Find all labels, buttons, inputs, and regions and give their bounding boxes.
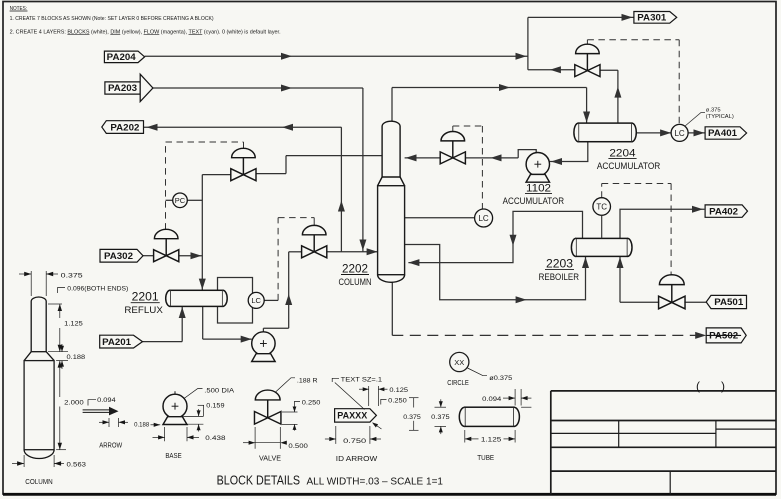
svg-text:PA501: PA501 [714,297,744,308]
svg-text:0.375: 0.375 [403,414,421,421]
svg-text:REBOILER: REBOILER [539,272,580,282]
svg-text:0.159: 0.159 [206,402,225,409]
svg-text:PA204: PA204 [107,52,137,63]
svg-text:2.000: 2.000 [64,399,84,406]
svg-text:ø.375: ø.375 [706,108,721,114]
svg-text:COLUMN: COLUMN [339,277,372,287]
svg-text:0.250: 0.250 [302,400,321,407]
svg-text:LC: LC [251,296,261,305]
svg-text:PA402: PA402 [709,206,738,217]
svg-text:1. CREATE 7 BLOCKS AS SHOWN (N: 1. CREATE 7 BLOCKS AS SHOWN (Note: SET L… [10,16,214,22]
svg-text:2203: 2203 [546,258,573,270]
svg-text:PA302: PA302 [104,251,133,262]
svg-text:(: ( [696,379,700,393]
svg-text:BASE: BASE [165,451,181,460]
svg-text:1.125: 1.125 [64,321,83,328]
svg-text:0.563: 0.563 [67,462,87,469]
svg-text:PA202: PA202 [110,122,139,133]
svg-text:(TYPICAL): (TYPICAL) [706,114,734,120]
svg-text:ø0.375: ø0.375 [489,375,512,382]
svg-text:0.250: 0.250 [388,398,407,405]
svg-text:ARROW: ARROW [99,440,123,449]
svg-text:CIRCLE: CIRCLE [447,378,469,387]
svg-text:LC: LC [674,129,684,138]
svg-text:1102: 1102 [526,182,551,194]
svg-text:0.125: 0.125 [389,387,408,394]
svg-text:XX: XX [454,358,464,367]
svg-text:0.188: 0.188 [134,421,149,428]
svg-text:PA502: PA502 [709,331,738,342]
svg-text:ALL WIDTH=.03 – SCALE 1=1: ALL WIDTH=.03 – SCALE 1=1 [307,477,444,488]
svg-text:0.438: 0.438 [205,435,226,442]
svg-text:ID ARROW: ID ARROW [336,454,378,463]
svg-text:2202: 2202 [342,263,368,275]
svg-text:0.094: 0.094 [97,397,116,404]
svg-text:PA201: PA201 [102,337,132,348]
svg-text:0.750: 0.750 [343,438,367,445]
svg-text:TC: TC [596,202,607,211]
svg-text:2. CREATE 4 LAYERS: BLOCKS (wh: 2. CREATE 4 LAYERS: BLOCKS (white), DIM … [10,29,281,35]
svg-text:1.125: 1.125 [481,437,502,444]
svg-text:LC: LC [478,214,488,223]
svg-text:0.096(BOTH ENDS): 0.096(BOTH ENDS) [67,286,128,293]
svg-text:0.188: 0.188 [67,354,86,361]
svg-text:TEXT SZ=.1: TEXT SZ=.1 [341,377,383,384]
svg-text:2201: 2201 [132,292,159,304]
svg-text:PA301: PA301 [637,13,667,24]
svg-text:.500 DIA: .500 DIA [204,387,234,394]
svg-text:.188 R: .188 R [297,377,318,384]
svg-text:PAXXX: PAXXX [337,411,368,422]
svg-text:2204: 2204 [609,147,635,159]
svg-text:REFLUX: REFLUX [124,305,163,315]
svg-text:ACCUMULATOR: ACCUMULATOR [503,196,565,206]
svg-text:PA203: PA203 [108,83,137,94]
svg-text:PA401: PA401 [708,128,738,139]
svg-text:ACCUMULATOR: ACCUMULATOR [597,161,661,171]
svg-text:VALVE: VALVE [259,453,281,462]
svg-text:0.375: 0.375 [61,272,83,279]
svg-text:): ) [721,379,725,393]
svg-text:TUBE: TUBE [477,453,494,462]
svg-text:0.500: 0.500 [288,443,308,450]
svg-text:0.094: 0.094 [482,396,502,403]
svg-text:0.375: 0.375 [431,414,450,421]
svg-text:COLUMN: COLUMN [25,477,52,486]
svg-text:BLOCK DETAILS: BLOCK DETAILS [217,473,300,487]
svg-text:PC: PC [175,196,186,205]
